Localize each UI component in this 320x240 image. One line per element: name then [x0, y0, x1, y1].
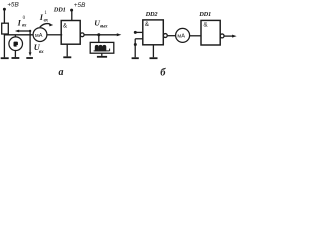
DD2 ground stub	[152, 45, 154, 58]
wire from +5V terminal to potentiometer R1	[3, 10, 5, 23]
ground under DD1	[63, 56, 71, 58]
label Uvx	[34, 43, 44, 55]
ground under input 2	[132, 57, 139, 59]
wire from R1 bottom to ground	[3, 34, 5, 57]
svg-text:+5В: +5В	[74, 2, 86, 9]
svg-text:вх: вх	[39, 49, 44, 55]
ground under Uvx arrow	[26, 57, 33, 59]
node: Uvx measuring arrow to ground	[29, 30, 31, 32]
wire input 1 to DD2	[135, 31, 143, 33]
svg-text:вых: вых	[100, 25, 108, 30]
gate DD1b body	[201, 20, 220, 45]
label I1vx	[39, 11, 49, 24]
terminal dot 2 of DD2	[134, 43, 137, 46]
wire input 2 down to ground	[134, 39, 136, 58]
ammeter PA1	[33, 28, 47, 42]
svg-text:&: &	[63, 22, 68, 29]
current direction arrow I0vx (points left)	[15, 30, 30, 33]
ammeter PA2	[176, 28, 190, 42]
svg-text:DD1: DD1	[198, 11, 211, 18]
input terminal dot 1 of DD2	[134, 31, 137, 34]
svg-text:&: &	[145, 21, 150, 28]
ground under R1	[1, 57, 9, 59]
terminal dot +5V left	[3, 8, 6, 11]
svg-text:DD1: DD1	[53, 7, 66, 14]
DD1b output wire with arrow	[224, 35, 233, 37]
wire from node down to indicator	[98, 35, 100, 43]
curved current arrow I1vx (points right)	[40, 23, 53, 27]
gate DD2 body	[143, 20, 164, 45]
voltmeter letter B	[14, 42, 19, 47]
wire ammeter PA2 to DD1b	[190, 35, 201, 37]
main input wire to ammeter	[4, 34, 33, 36]
ground under DD2	[150, 57, 158, 59]
power wire to DD1 top	[71, 11, 73, 20]
svg-text:вх: вх	[44, 19, 49, 24]
terminal dot +5V for DD1	[70, 9, 73, 12]
wire ammeter to DD1 input	[47, 34, 62, 36]
pulse waveform glyph	[94, 45, 110, 51]
potentiometer R1 body	[2, 23, 9, 34]
junction node on output wire	[97, 33, 100, 36]
ground under indicator	[97, 56, 107, 58]
DD1b output inversion bubble	[220, 34, 224, 38]
svg-text:DD2: DD2	[145, 11, 159, 18]
label I0vx	[17, 16, 27, 29]
svg-text:мА: мА	[35, 33, 43, 39]
svg-text:&: &	[203, 22, 208, 29]
gate DD1 body	[61, 21, 80, 45]
wire DD2 to ammeter PA2	[167, 35, 175, 37]
DD1 ground stub	[66, 44, 68, 56]
DD1 output wire with arrow	[84, 34, 118, 36]
ground under voltmeter	[12, 57, 20, 59]
svg-text:мА: мА	[177, 34, 185, 40]
voltmeter PV1 stub from main wire	[14, 35, 16, 37]
pulse indicator (oscilloscope) box	[90, 42, 114, 53]
DD1 output inversion bubble	[80, 33, 84, 37]
DD2 output inversion bubble	[163, 34, 167, 38]
wire indicator to ground	[101, 53, 103, 56]
voltmeter PV1	[9, 37, 23, 51]
svg-text:+5В: +5В	[7, 1, 19, 8]
svg-text:а: а	[59, 67, 64, 78]
label Uvyh	[94, 19, 108, 30]
wire input 2 of DD2	[135, 38, 143, 40]
voltmeter to ground wire	[14, 50, 16, 57]
